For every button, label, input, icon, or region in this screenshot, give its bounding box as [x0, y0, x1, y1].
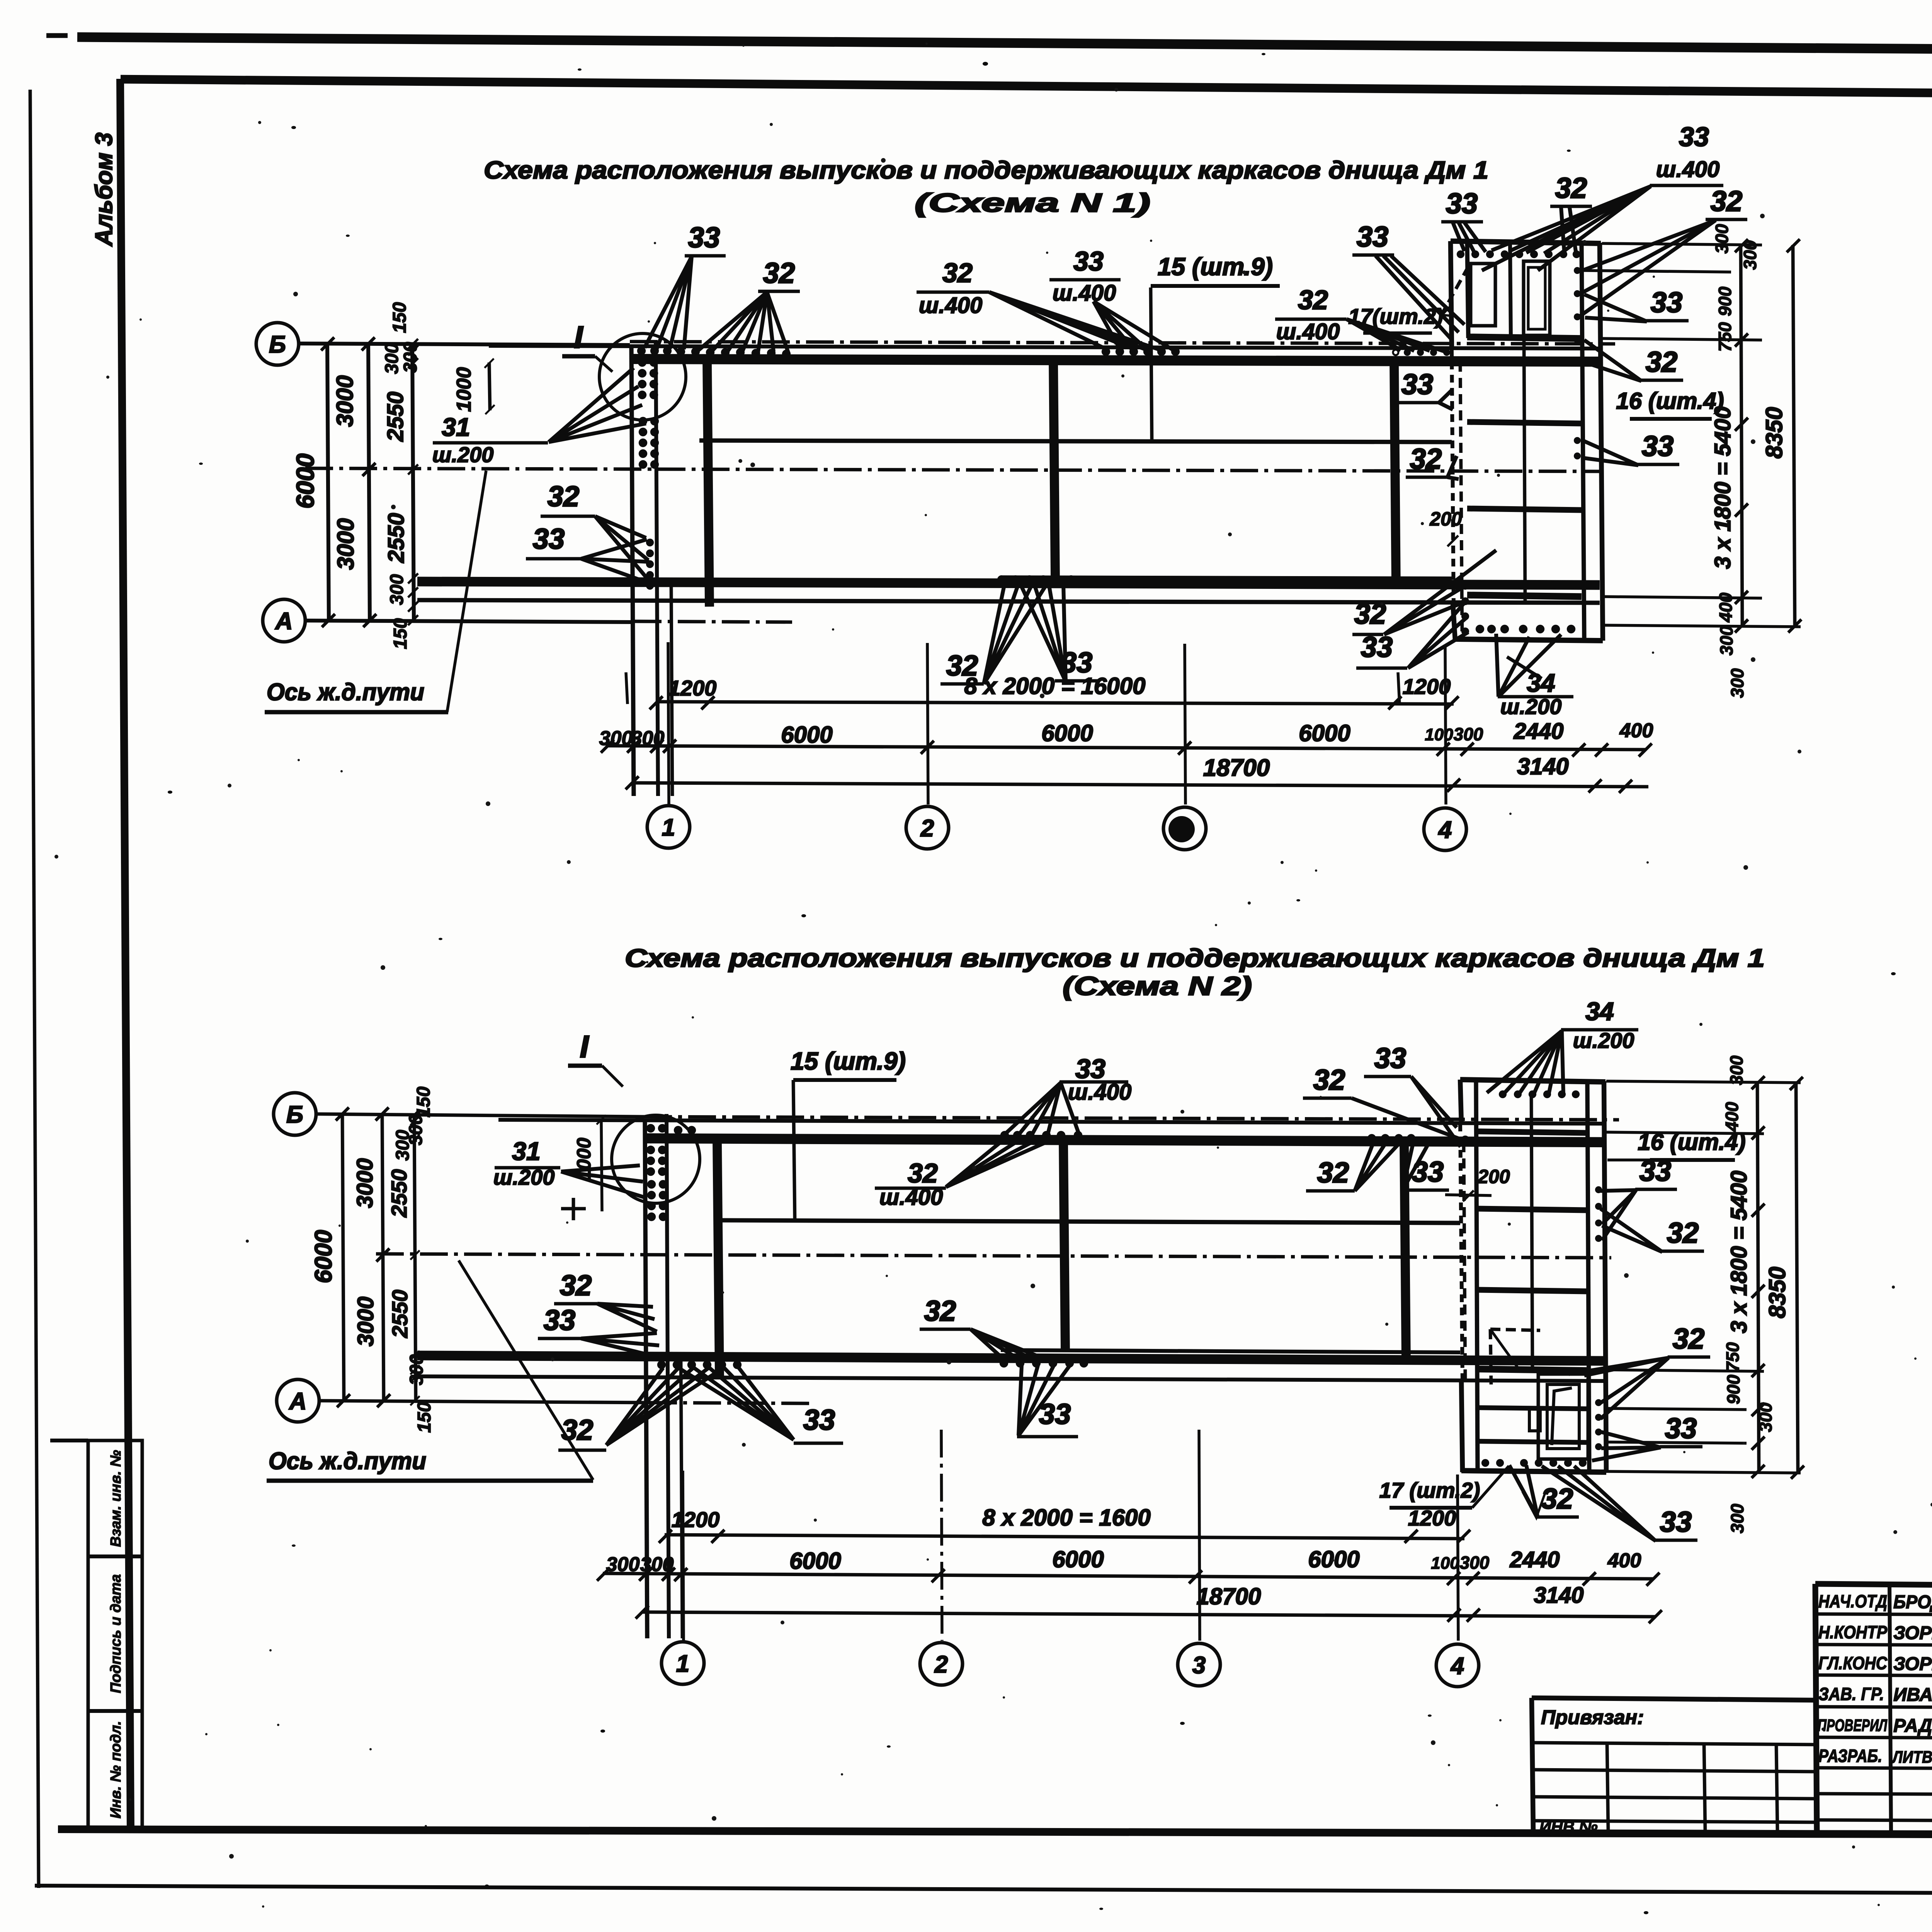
plan2 outrigger top dotted rebar row: [1499, 1090, 1507, 1098]
plan2 outrigger slot rect outer: [1538, 1374, 1588, 1459]
svg-text:Ось ж.д.пути: Ось ж.д.пути: [269, 1448, 426, 1475]
svg-text:300: 300: [1460, 1553, 1490, 1573]
svg-text:32: 32: [1646, 346, 1677, 378]
svg-text:900: 900: [1715, 286, 1735, 316]
plan1 outrigger slot rect 1: [1471, 264, 1495, 326]
plan1 grid circle 4: [1424, 808, 1466, 850]
svg-text:Инв. № подл.: Инв. № подл.: [108, 1721, 124, 1819]
plan1 left wall outer line: [631, 346, 634, 796]
plan1 outrigger right wall dots: [1574, 267, 1581, 274]
svg-text:33: 33: [1642, 430, 1673, 462]
plan1 left dim line 3000x2: [368, 344, 370, 621]
svg-text:Схема расположения выпусков: Схема расположения выпусков и поддержива…: [484, 156, 1488, 184]
svg-text:4: 4: [1438, 816, 1452, 843]
svg-text:А: А: [275, 608, 293, 634]
svg-text:2: 2: [934, 1651, 948, 1678]
svg-text:Н.КОНТР: Н.КОНТР: [1818, 1622, 1887, 1642]
svg-text:3 x 1800 = 5400: 3 x 1800 = 5400: [1710, 406, 1735, 569]
svg-text:ЗОРИН: ЗОРИН: [1893, 1654, 1932, 1674]
plan1 dim 3x1800=5400 vertical: [1741, 245, 1742, 626]
svg-text:Альбом 3: Альбом 3: [91, 133, 117, 247]
plan1 slab interior line lower partial: [1001, 577, 1452, 578]
svg-text:1200: 1200: [672, 1507, 720, 1532]
svg-text:6000: 6000: [789, 1548, 841, 1574]
svg-text:32: 32: [1711, 185, 1742, 217]
svg-text:33: 33: [1401, 368, 1433, 400]
plan1 detail I circle on wall: [599, 333, 686, 420]
svg-text:33: 33: [1660, 1506, 1692, 1538]
svg-text:15 (шт.9): 15 (шт.9): [1158, 253, 1273, 281]
svg-text:33: 33: [1639, 1155, 1671, 1187]
svg-text:6000: 6000: [1052, 1546, 1104, 1572]
svg-text:100: 100: [1431, 1554, 1459, 1573]
svg-text:750: 750: [1715, 322, 1735, 352]
svg-text:32: 32: [1667, 1217, 1699, 1249]
svg-text:6000: 6000: [1299, 720, 1350, 746]
plan2 outrigger bottom dotted row: [1481, 1459, 1489, 1467]
svg-text:400: 400: [1607, 1549, 1641, 1572]
svg-text:32: 32: [924, 1295, 956, 1327]
plan2 grid circle 3: [1178, 1643, 1220, 1686]
svg-text:Б: Б: [269, 331, 286, 358]
svg-text:18700: 18700: [1203, 755, 1270, 781]
svg-text:2550: 2550: [383, 391, 408, 442]
plan2 left dim line 2550 etc: [414, 1114, 416, 1401]
plan1 outrigger dashed diagonal arrow: [1442, 267, 1468, 314]
svg-text:3 x 1800 = 5400: 3 x 1800 = 5400: [1726, 1171, 1752, 1333]
svg-text:РАДЬКО: РАДЬКО: [1893, 1716, 1932, 1736]
svg-text:18700: 18700: [1197, 1583, 1261, 1609]
plan1 outrigger inner right line: [1582, 243, 1584, 639]
svg-text:32: 32: [1555, 172, 1587, 204]
plan2 outrigger slot diagonal: [1552, 1388, 1572, 1445]
svg-text:2: 2: [920, 815, 934, 842]
svg-text:150: 150: [413, 1087, 434, 1117]
svg-text:200: 200: [1429, 508, 1462, 530]
svg-text:200: 200: [1477, 1166, 1510, 1187]
svg-text:300: 300: [1740, 240, 1760, 270]
sheet left inner border line: [120, 79, 131, 1832]
svg-text:33: 33: [1412, 1156, 1444, 1188]
plan2 dim 8350 vertical: [1796, 1083, 1798, 1473]
plan2 interior column line 1: [717, 1142, 719, 1376]
plan2 outrigger inner left line: [1476, 1081, 1478, 1471]
plan2 slab bottom inner edge thick: [417, 1355, 1604, 1361]
svg-text:300: 300: [393, 1130, 413, 1161]
svg-text:ИВАНОВА: ИВАНОВА: [1893, 1685, 1932, 1705]
svg-text:33: 33: [1073, 246, 1104, 276]
svg-text:1200: 1200: [668, 676, 717, 700]
plan2 outrigger line 900: [1478, 1408, 1587, 1409]
svg-text:32: 32: [1317, 1156, 1349, 1189]
svg-text:ш.400: ш.400: [919, 293, 982, 318]
svg-text:Ось ж.д.пути: Ось ж.д.пути: [267, 679, 424, 706]
plan1 outrigger slot rect 2 inner: [1528, 267, 1545, 329]
plan1 top edge rebar dots near outrigger: [1404, 349, 1411, 356]
sheet left outer thin border: [30, 90, 39, 1888]
svg-text:8 x 2000 = 1600: 8 x 2000 = 1600: [982, 1505, 1150, 1531]
plan2 bottom edge rebar dots right cluster: [1000, 1359, 1008, 1367]
svg-text:32: 32: [908, 1158, 938, 1188]
plan2 left wall rebar dots: [646, 1124, 655, 1133]
svg-text:4: 4: [1450, 1653, 1464, 1679]
plan2 wall dim 1000: [601, 1120, 602, 1211]
sheet bottom outer thin border line: [35, 1886, 1932, 1896]
plan1 outrigger horizontal 3: [1467, 509, 1582, 510]
svg-text:300: 300: [1755, 1402, 1776, 1432]
plan1 slab bottom inner edge thick: [417, 582, 1600, 585]
plan2 outrigger horizontal thick 1: [1478, 1131, 1587, 1133]
svg-text:ш.400: ш.400: [1053, 281, 1116, 306]
plan1 outrigger dim extensions right: [1602, 243, 1762, 245]
svg-text:А: А: [289, 1388, 307, 1415]
svg-text:32: 32: [548, 480, 579, 512]
svg-text:1: 1: [676, 1650, 689, 1677]
svg-text:150: 150: [414, 1402, 435, 1433]
left stamp strip frame: [88, 1440, 142, 1829]
svg-text:300: 300: [382, 343, 402, 374]
svg-text:33: 33: [1357, 221, 1388, 253]
plan2 outrigger mid vertical: [1531, 1094, 1532, 1370]
sheet inner top border line: [121, 79, 1932, 98]
svg-text:32: 32: [561, 1414, 593, 1446]
plan2 axis B circle: [274, 1093, 316, 1135]
svg-text:300: 300: [387, 574, 407, 605]
svg-text:33: 33: [1679, 122, 1709, 152]
svg-text:32: 32: [1541, 1483, 1573, 1515]
svg-text:300: 300: [400, 342, 421, 373]
svg-text:900: 900: [1723, 1374, 1743, 1404]
svg-text:33: 33: [1374, 1042, 1406, 1074]
plan2 left wall inner line: [667, 1114, 669, 1638]
svg-text:300: 300: [1726, 1055, 1747, 1085]
svg-text:300: 300: [406, 1354, 427, 1385]
plan1 left wall rebar dots: [637, 347, 646, 355]
svg-text:БРОДСКИЙ: БРОДСКИЙ: [1893, 1591, 1932, 1612]
privyazan table rows: [1532, 1743, 1815, 1745]
plan2 outrigger slot small rect: [1529, 1408, 1540, 1431]
plan1 rail axis chain line: [305, 468, 1604, 471]
plan1 left wall inner dotted line: [656, 340, 658, 796]
svg-text:ш.200: ш.200: [1573, 1028, 1634, 1053]
plan2 grid circle 2: [920, 1643, 963, 1685]
plan1 outrigger center vertical lower: [1524, 338, 1525, 600]
svg-text:400: 400: [1722, 1102, 1742, 1132]
plan2 axis A circle: [277, 1379, 319, 1422]
svg-text:300: 300: [1454, 724, 1483, 744]
svg-text:8 x 2000 = 16000: 8 x 2000 = 16000: [964, 673, 1146, 699]
plan2 outrigger horizontal 2: [1478, 1209, 1587, 1210]
svg-text:300: 300: [1727, 1503, 1747, 1533]
svg-text:33: 33: [1651, 286, 1682, 318]
plan2 interior column line 3: [1404, 1144, 1406, 1360]
plan1 interior column line 2: [1053, 362, 1055, 577]
svg-text:300: 300: [1727, 668, 1747, 698]
svg-text:300: 300: [1716, 626, 1736, 655]
svg-text:34: 34: [1585, 997, 1614, 1026]
svg-text:ЗОРИН: ЗОРИН: [1893, 1623, 1932, 1643]
plan1 outrigger horizontal thick 4: [1467, 595, 1582, 597]
svg-text:1200: 1200: [1408, 1506, 1456, 1530]
plan2 grid circle 1: [662, 1642, 704, 1684]
plan2 leader vertical for pos15: [793, 1080, 795, 1221]
plan1 grid extension verticals: [668, 642, 669, 804]
svg-text:ш.200: ш.200: [432, 442, 494, 467]
svg-text:33: 33: [803, 1404, 835, 1436]
plan1 dim 8350 vertical: [1793, 245, 1795, 627]
plan2 outrigger inner right line: [1587, 1082, 1589, 1471]
plan1 interior column line 1: [707, 361, 709, 607]
svg-text:3: 3: [1192, 1652, 1206, 1679]
plan1 left dim line 6000: [327, 344, 329, 621]
svg-text:3000: 3000: [353, 1296, 378, 1346]
plan2 rail axis chain line: [376, 1254, 1611, 1258]
svg-text:6000: 6000: [310, 1230, 337, 1283]
plan1 outrigger outer rectangle: [1451, 241, 1601, 243]
plan1 axis A circle: [263, 599, 305, 642]
svg-text:6000: 6000: [291, 454, 319, 509]
plan2 slab interior line lower partial: [1001, 1350, 1460, 1352]
svg-text:ш.400: ш.400: [1276, 319, 1340, 344]
svg-text:6000: 6000: [781, 722, 832, 748]
plan1 top edge rebar dots cluster mid: [1102, 347, 1110, 356]
plan2 top edge rebar dots right cluster: [1367, 1134, 1376, 1143]
plan2 outrigger line 750: [1478, 1441, 1587, 1442]
svg-text:32: 32: [560, 1269, 592, 1301]
plan1 outrigger inner left line: [1467, 243, 1468, 338]
svg-text:33: 33: [544, 1304, 575, 1336]
svg-text:ЛИТВИНЕНКО: ЛИТВИНЕНКО: [1891, 1748, 1932, 1767]
svg-text:I: I: [574, 320, 583, 354]
svg-text:Подпись и дата: Подпись и дата: [108, 1574, 124, 1693]
plan1 interior column line 3: [1394, 362, 1396, 587]
svg-text:32: 32: [1298, 285, 1328, 315]
svg-text:400: 400: [1619, 719, 1653, 742]
svg-text:3140: 3140: [1517, 753, 1568, 779]
plan2 slab top outer edge: [498, 1120, 1604, 1124]
plan2 outrigger slot rect inner: [1547, 1384, 1579, 1449]
svg-text:6000: 6000: [1041, 720, 1093, 746]
plan2 slab interior line upper: [716, 1220, 1460, 1223]
svg-text:32: 32: [942, 258, 973, 288]
svg-text:ИНВ.№: ИНВ.№: [1539, 1818, 1598, 1836]
plan1 slab bottom outer edge: [417, 600, 1600, 603]
svg-text:НАЧ.ОТД: НАЧ.ОТД: [1818, 1591, 1887, 1611]
plan1 outrigger bottom dotted row: [1476, 625, 1484, 633]
svg-text:Схема расположения выпусков: Схема расположения выпусков и поддержива…: [625, 944, 1765, 972]
plan2 slab top inner edge thick: [644, 1138, 1604, 1142]
svg-text:33: 33: [1665, 1412, 1697, 1444]
plan1 leader vertical for pos15: [1151, 287, 1152, 441]
svg-text:32: 32: [763, 257, 795, 289]
svg-text:31: 31: [512, 1137, 540, 1165]
svg-text:33: 33: [1361, 631, 1393, 663]
svg-text:32: 32: [1673, 1323, 1704, 1355]
plan2 grid extension verticals: [683, 1471, 684, 1641]
svg-text:16 (шт.4): 16 (шт.4): [1616, 388, 1724, 414]
svg-text:I: I: [580, 1029, 589, 1064]
plan1 outrigger mid vertical: [1510, 243, 1511, 338]
svg-text:1000: 1000: [453, 367, 475, 412]
plan1 outrigger top dotted rebar row: [1457, 250, 1464, 258]
svg-text:ГЛ.КОНС: ГЛ.КОНС: [1818, 1653, 1888, 1673]
svg-text:15 (шт.9): 15 (шт.9): [791, 1047, 906, 1075]
plan2 left dim line 6000: [342, 1114, 344, 1401]
plan1 grid circle 3 blotted: [1163, 807, 1206, 850]
svg-text:100: 100: [1425, 725, 1453, 744]
svg-text:(Схема N 1): (Схема N 1): [915, 188, 1150, 218]
svg-text:1200: 1200: [1403, 674, 1451, 699]
svg-text:750: 750: [1723, 1342, 1743, 1372]
plan2 top edge rebar dots mid cluster: [1000, 1131, 1009, 1139]
svg-text:Привязан:: Привязан:: [1541, 1706, 1644, 1729]
plan1 axis B circle: [256, 323, 299, 365]
title block signature table rows: [1815, 1614, 1932, 1615]
svg-text:32: 32: [1313, 1064, 1345, 1096]
plan1 outrigger slot rect 2 outer: [1524, 261, 1550, 335]
svg-text:ш.400: ш.400: [1656, 157, 1719, 182]
plan2 outrigger dim extensions right: [1606, 1081, 1801, 1083]
plan2 outrigger right wall dots upper: [1595, 1186, 1602, 1193]
plan2 slab bottom outer edge: [417, 1376, 1604, 1381]
plan1 outrigger dashed inner vertical: [1460, 362, 1462, 634]
plan1 lower wall dots near grid4: [1461, 582, 1469, 590]
svg-text:3140: 3140: [1534, 1583, 1583, 1608]
plan1 grid line 4 dashed wall: [1452, 349, 1454, 608]
svg-text:1: 1: [662, 814, 675, 841]
svg-text:2440: 2440: [1509, 1547, 1560, 1572]
sheet outer top border line: [77, 37, 1932, 53]
plan1 wall dim 1000: [489, 362, 490, 410]
svg-text:РАЗРАБ.: РАЗРАБ.: [1818, 1746, 1882, 1766]
plan1 axis A line: [306, 621, 634, 622]
svg-text:ЗАВ. ГР.: ЗАВ. ГР.: [1818, 1684, 1884, 1704]
plan2 outrigger right wall dots lower: [1595, 1399, 1602, 1406]
plan2 grid line 4 dashed wall: [1460, 1124, 1463, 1381]
plan2 axis A line: [320, 1401, 649, 1403]
plan2 grid circle 4: [1436, 1644, 1479, 1687]
plan2 left wall outer line: [645, 1120, 647, 1638]
plan2 detail I circle on wall: [612, 1115, 700, 1203]
svg-text:3000: 3000: [332, 375, 358, 427]
svg-text:8350: 8350: [1761, 407, 1787, 458]
svg-text:33: 33: [1446, 187, 1478, 219]
plan2 axis B line: [316, 1114, 644, 1117]
svg-text:300: 300: [1712, 224, 1732, 253]
plan2 outrigger horizontal 3: [1478, 1290, 1587, 1291]
svg-text:(Схема N 2): (Схема N 2): [1063, 971, 1252, 1001]
svg-text:400: 400: [1716, 592, 1736, 622]
svg-text:32: 32: [1410, 443, 1442, 475]
plan1 outrigger horizontal 2: [1467, 422, 1582, 423]
svg-text:2550: 2550: [384, 513, 409, 563]
privyazan table columns: [1607, 1743, 1608, 1832]
plan1 axis B line: [299, 344, 630, 345]
svg-text:ПРОВЕРИЛ: ПРОВЕРИЛ: [1818, 1716, 1888, 1735]
sheet bottom main border line: [58, 1829, 1932, 1836]
plan1 slab top outer edge: [489, 346, 1600, 349]
plan2 outrigger dashed rect with diagonal: [1490, 1329, 1540, 1330]
svg-text:150: 150: [389, 302, 410, 333]
svg-text:150: 150: [390, 618, 411, 649]
plan1 outrigger horizontal thick 1: [1467, 337, 1582, 338]
svg-text:3000: 3000: [352, 1158, 378, 1208]
title block signature table frame: [1815, 1584, 1932, 1586]
scan speckles: [291, 126, 296, 129]
svg-text:2550: 2550: [388, 1290, 412, 1338]
svg-text:2440: 2440: [1513, 719, 1563, 744]
svg-text:17 (шт.2): 17 (шт.2): [1379, 1478, 1480, 1502]
plan2 outrigger horizontal thick 4: [1478, 1369, 1587, 1371]
svg-text:2550: 2550: [387, 1169, 411, 1218]
plan1 bottom left wall dots: [646, 539, 654, 546]
privyazan block frame: [1532, 1698, 1815, 1700]
plan1 grid circle 1: [647, 806, 690, 848]
plan2 left dim line 3000x2: [382, 1114, 384, 1401]
plan1 bottom edge rebar dots cluster: [997, 575, 1006, 584]
plan2 outrigger dashed inner vertical: [1464, 1142, 1465, 1379]
svg-text:8350: 8350: [1764, 1267, 1790, 1318]
plan2 interior column line 2: [1063, 1143, 1065, 1350]
plan2 bottom edge rebar dots left cluster: [657, 1361, 666, 1369]
svg-text:33: 33: [688, 221, 720, 253]
plan1 left dim line 2550 etc: [412, 344, 414, 621]
plan1 grid circle 2: [906, 806, 949, 849]
svg-text:31: 31: [442, 413, 470, 441]
svg-text:Б: Б: [286, 1101, 303, 1128]
svg-text:33: 33: [533, 523, 565, 555]
plan2 outrigger outer rectangle: [1460, 1080, 1605, 1082]
plan2 dim 3x1800=5400 vertical: [1757, 1082, 1759, 1472]
plan1 slab interior line upper: [699, 440, 1452, 442]
svg-text:3000: 3000: [333, 518, 359, 570]
plan1 slab top inner edge thick: [631, 359, 1600, 362]
svg-text:Взам. инв. №: Взам. инв. №: [108, 1450, 124, 1547]
